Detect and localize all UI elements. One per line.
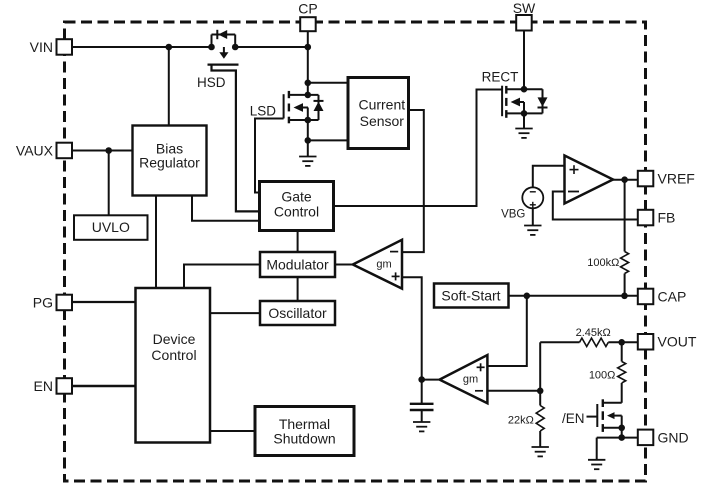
wire Bias Regulator to Gate Control <box>192 196 260 221</box>
ground (RECT source) <box>515 129 532 138</box>
svg-text:Sensor: Sensor <box>360 113 405 129</box>
wire error amp minus input to FB pin <box>553 192 638 220</box>
svg-text:VREF: VREF <box>658 171 695 187</box>
wire LSD source to ground / current sensor <box>307 120 309 157</box>
node RECT drain <box>521 86 528 93</box>
node VREF output <box>621 176 628 183</box>
wire VAUX to UVLO <box>108 151 110 216</box>
DEVICES2 <box>208 30 638 469</box>
wire comp capacitor stub <box>421 380 423 403</box>
wire VBG to ground <box>532 208 534 225</box>
svg-text:PG: PG <box>33 294 53 310</box>
wire gm2 minus input to feedback node <box>488 390 541 392</box>
wire VBG to error amp plus input <box>533 166 565 188</box>
svg-text:Soft-Start: Soft-Start <box>441 288 500 304</box>
node VAUX/UVLO junction <box>105 147 112 154</box>
node soft-start/CAP junction <box>524 293 531 300</box>
wire Soft-Start to CAP pin <box>509 295 638 297</box>
svg-text:GND: GND <box>658 429 689 445</box>
pin CAP <box>638 289 654 305</box>
op-amp U1 (VREF buffer amplifier) <box>565 156 614 204</box>
PIN SQUARES <box>57 15 654 445</box>
node gm2 output/comp junction <box>418 376 425 383</box>
pin CP <box>300 17 316 31</box>
node /EN source <box>618 425 625 432</box>
wire feedback node to 22k resistor <box>539 391 541 406</box>
pin SW <box>516 15 532 31</box>
node gm2 minus/22k junction <box>537 388 544 395</box>
block Device Control <box>136 288 211 443</box>
wire gm2 output node <box>422 379 439 381</box>
ground (22k resistor) <box>532 447 549 456</box>
block Gate Control <box>260 182 334 231</box>
wire Current Sensor to gm minus input <box>402 110 424 252</box>
wire HSD to CP net <box>235 46 308 48</box>
node VIN/CP junction <box>305 44 312 51</box>
svg-text:EN: EN <box>34 378 53 394</box>
block Soft-Start <box>434 284 509 308</box>
transistor RECT (rectifier NMOS) <box>502 86 547 129</box>
svg-text:Shutdown: Shutdown <box>273 431 335 447</box>
ground (LSD source) <box>299 157 316 166</box>
resistor R1 100k <box>621 252 629 274</box>
transistor LSD (low-side driver NMOS) <box>255 91 348 193</box>
node HSD drain <box>232 44 239 51</box>
wire comp capacitor to ground <box>421 411 423 422</box>
wire EN to Device Control <box>72 385 136 387</box>
svg-text:2.45kΩ: 2.45kΩ <box>576 327 611 339</box>
node VOUT divider junction <box>618 339 625 346</box>
wire Bias Regulator to Device Control <box>155 196 157 289</box>
wire Modulator to Device Control <box>184 265 260 289</box>
wire 100k resistor to CAP net <box>624 274 626 296</box>
pin FB <box>638 210 654 226</box>
wire Device Control to Oscillator <box>210 312 260 314</box>
wire CP net to Current Sensor <box>308 82 348 84</box>
wire VIN to Bias Regulator <box>168 47 170 126</box>
wire 22k resistor to ground <box>539 431 541 447</box>
svg-text:RECT: RECT <box>482 69 519 84</box>
wire CP vertical net <box>307 31 309 95</box>
node RECT source <box>521 110 528 117</box>
node LSD drain <box>305 92 312 99</box>
node HSD source <box>208 44 215 51</box>
transistor HSD (high-side driver PMOS) <box>208 30 260 212</box>
svg-text:HSD: HSD <box>197 75 226 90</box>
ground (VBG) <box>524 226 541 235</box>
svg-text:VOUT: VOUT <box>658 334 697 350</box>
capacitor C1 (compensation) <box>410 403 434 405</box>
svg-text:VAUX: VAUX <box>16 142 54 158</box>
BLOCKS <box>74 78 509 456</box>
resistor R3 100ohm <box>618 362 626 383</box>
block UVLO <box>74 215 148 240</box>
ground (comp capacitor) <box>413 422 430 431</box>
ground (/EN source) <box>588 460 605 469</box>
svg-text:SW: SW <box>513 0 536 16</box>
svg-text:Current: Current <box>358 97 405 113</box>
wire VAUX to Bias Regulator <box>72 150 133 152</box>
IC boundary dashed border <box>65 22 646 481</box>
wire PG to Device Control <box>72 301 136 303</box>
wire 2.45k resistor to VOUT pin <box>608 341 638 343</box>
wire divider to 2.45k resistor <box>540 341 579 343</box>
resistor R2 2.45k <box>580 338 609 346</box>
node LSD/current-sensor junction <box>305 137 312 144</box>
transistor Q /EN (output discharge NMOS) <box>587 399 638 460</box>
svg-text:LSD: LSD <box>250 104 277 119</box>
svg-text:gm: gm <box>376 258 391 270</box>
wire GND net <box>597 437 638 439</box>
wire gm plus input to soft-start node <box>402 277 422 379</box>
pin GND <box>638 430 654 446</box>
block Current Sensor <box>348 78 409 149</box>
wire VREF node to 100k resistor <box>624 180 626 252</box>
wire VIN to HSD <box>72 46 211 48</box>
pin VOUT <box>638 334 654 350</box>
wire RECT source to ground <box>523 113 525 128</box>
svg-text:Regulator: Regulator <box>139 154 200 170</box>
wire SW pin to RECT drain <box>523 31 525 90</box>
node CP/current-sensor junction <box>305 80 312 87</box>
svg-text:Modulator: Modulator <box>266 256 329 272</box>
svg-text:CP: CP <box>298 1 317 17</box>
wire Device Control to Thermal Shutdown <box>210 430 255 432</box>
svg-text:CAP: CAP <box>658 289 687 305</box>
node /EN GND junction <box>618 434 625 441</box>
svg-text:22kΩ: 22kΩ <box>508 415 534 427</box>
block Modulator <box>260 252 335 277</box>
wire feedback node up to divider <box>539 342 541 391</box>
pin PG <box>57 295 73 311</box>
wire VOUT node to 100 ohm resistor <box>621 342 623 361</box>
wire error amp output to VREF pin <box>613 179 638 181</box>
svg-text:Device: Device <box>153 331 196 347</box>
svg-text:Control: Control <box>151 347 196 363</box>
wire soft-start node to gm2 plus input <box>488 296 527 366</box>
node VIN/Bias junction <box>166 44 173 51</box>
svg-text:VBG: VBG <box>501 208 525 220</box>
op-amp gm1 (PWM comparator) <box>353 240 402 289</box>
svg-text:gm: gm <box>463 373 478 385</box>
svg-text:100kΩ: 100kΩ <box>587 257 619 269</box>
wire 100 ohm resistor to /EN drain <box>621 383 623 403</box>
block Bias Regulator <box>133 126 207 196</box>
wire Modulator to Oscillator <box>297 277 299 301</box>
pin VIN <box>57 39 73 55</box>
block Thermal Shutdown <box>255 407 354 456</box>
svg-text:FB: FB <box>658 210 676 226</box>
resistor R4 22k <box>536 406 544 431</box>
node CAP/100k junction <box>621 293 628 300</box>
block Oscillator <box>260 301 335 325</box>
pin EN <box>57 378 73 394</box>
svg-text:Control: Control <box>274 204 319 220</box>
svg-text:Gate: Gate <box>281 189 312 205</box>
svg-text:VIN: VIN <box>30 39 53 55</box>
svg-text:/EN: /EN <box>562 411 585 426</box>
node LSD source <box>305 117 312 124</box>
pin VREF <box>638 171 654 187</box>
wire Modulator to gm amp output <box>335 264 353 266</box>
pin VAUX <box>57 143 73 159</box>
svg-text:UVLO: UVLO <box>92 219 130 235</box>
voltage source VBG (bandgap reference) <box>522 187 543 208</box>
wire Gate Control to Modulator <box>297 231 299 253</box>
wire Gate Control to RECT gate <box>334 90 503 207</box>
svg-text:100Ω: 100Ω <box>589 369 616 381</box>
op-amp gm2 (soft-start/error gm amp) <box>440 355 488 403</box>
svg-text:Oscillator: Oscillator <box>268 305 327 321</box>
